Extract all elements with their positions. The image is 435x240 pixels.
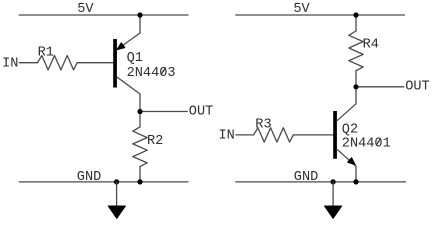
svg-text:GND: GND: [294, 170, 318, 185]
wire OUT node to R2: [139, 112, 141, 127]
transistor Q1: [113, 33, 140, 94]
resistor R1: [38, 56, 78, 70]
junction node R2 / GND rail: [137, 179, 142, 184]
wire OUT node to OUT label (left): [140, 111, 187, 113]
resistor R3: [254, 128, 294, 142]
wire R4 to OUT node (right): [355, 71, 357, 87]
svg-text:IN: IN: [2, 56, 18, 71]
svg-text:Q2: Q2: [342, 123, 358, 138]
transistor Q2: [333, 104, 356, 166]
node OUT (left): [137, 109, 142, 114]
value label 2N4401: [342, 137, 391, 152]
svg-text:IN: IN: [219, 129, 235, 144]
svg-text:5V: 5V: [293, 2, 310, 17]
svg-text:2N4403: 2N4403: [127, 66, 176, 81]
wire 5V rail to Q1 emitter: [139, 15, 141, 33]
wire R3 to Q2 base: [293, 134, 333, 136]
wire Q1 collector to OUT node (left): [139, 94, 141, 112]
node OUT (right): [353, 84, 358, 89]
svg-text:GND: GND: [77, 170, 101, 185]
wire Q2 emitter to GND rail: [355, 166, 357, 182]
junction node ground symbol (right): [331, 179, 336, 184]
resistor R2: [133, 127, 147, 167]
svg-text:R1: R1: [38, 46, 54, 61]
wire GND rail (right): [236, 181, 406, 183]
wire R2 to GND rail: [139, 167, 141, 182]
wire 5V rail (right): [236, 14, 405, 16]
svg-text:Q1: Q1: [127, 51, 143, 66]
svg-text:OUT: OUT: [189, 104, 213, 119]
wire R1 to Q1 base: [77, 62, 113, 64]
junction node R4 / 5V rail: [353, 12, 358, 17]
ground symbol (left): [108, 182, 125, 218]
wire IN to R1 (left): [19, 62, 37, 64]
ground symbol (right): [325, 182, 342, 218]
junction node Q2 emitter / GND rail: [353, 179, 358, 184]
svg-text:R4: R4: [363, 38, 379, 53]
resistor R4: [349, 31, 363, 71]
wire OUT node to Q2 collector: [355, 87, 357, 104]
wire GND rail (left): [19, 181, 188, 183]
svg-text:OUT: OUT: [405, 80, 429, 95]
junction node Q1 emitter / 5V rail: [137, 12, 142, 17]
svg-text:R3: R3: [255, 117, 271, 132]
wire 5V rail to R4: [355, 15, 357, 31]
svg-text:R2: R2: [147, 134, 163, 149]
junction node ground symbol (left): [114, 179, 119, 184]
value label 2N4403: [127, 66, 176, 81]
svg-text:5V: 5V: [77, 2, 94, 17]
svg-text:2N4401: 2N4401: [342, 137, 391, 152]
wire OUT node to OUT label (right): [356, 86, 404, 88]
wire 5V rail (left): [19, 14, 188, 16]
wire IN to R3 (right): [236, 134, 254, 136]
